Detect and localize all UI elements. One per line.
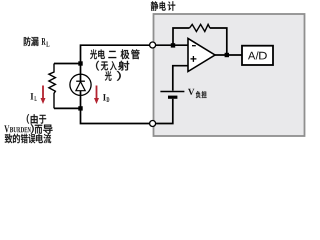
feedback loop wire (173, 28, 227, 55)
label photodiode (光电二极管) line 1 (90, 49, 139, 59)
label photodiode line 3 光） (105, 71, 121, 81)
label ID (103, 94, 109, 102)
node: output junction (225, 53, 229, 57)
label V burden (V负担) (188, 89, 207, 98)
op-amp U1 (188, 38, 215, 71)
wire: non-inverting input to bias battery (173, 66, 188, 91)
note label line 3 致的错误电流 (5, 134, 51, 144)
note label line 1 （由于 (27, 114, 46, 124)
node: inverting input junction (171, 43, 175, 47)
current arrow ID (red) (94, 86, 99, 105)
photodiode D1 circle (70, 74, 91, 95)
node: bottom junction (78, 106, 82, 110)
electrometer enclosure box (154, 14, 305, 136)
wire: diode branch vertical and bottom rail to terminal (81, 64, 153, 124)
label electrometer (静电计) (151, 1, 175, 11)
label IL (30, 93, 36, 101)
current arrow IL (red) (41, 86, 46, 105)
resistor RL (leakage) (49, 64, 56, 109)
wire: photodiode top rail to op-amp inverting input (81, 45, 189, 63)
node: top junction of diode and resistor (78, 61, 82, 65)
label photodiode line 2 （无入射 (96, 61, 129, 71)
wire: battery to bottom terminal (153, 99, 173, 124)
wire: top rail to leakage resistor (54, 63, 81, 65)
label leakage RL (防漏 R_L) (24, 37, 50, 47)
battery V burden (160, 92, 184, 98)
note label line 2 V_BURDEN）而导 (4, 124, 52, 134)
photodiode D1 symbol (cathode bar and triangle) (76, 81, 85, 91)
terminal: top input (open circle) (150, 42, 156, 48)
A/D converter box (242, 46, 273, 65)
wire: op-amp output to A/D (215, 54, 242, 56)
feedback resistor RF (190, 24, 211, 31)
wire: resistor bottom to bottom junction (54, 107, 81, 109)
terminal: bottom input (open circle) (150, 121, 156, 127)
